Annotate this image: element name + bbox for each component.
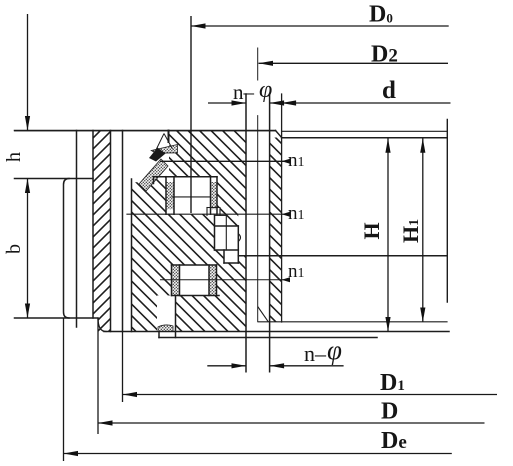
svg-text:De: De [381,428,407,454]
svg-text:H: H [359,222,384,239]
svg-text:D2: D2 [371,42,398,68]
svg-text:d: d [382,77,396,104]
svg-text:h: h [3,152,25,162]
svg-text:b: b [3,244,25,254]
svg-text:D: D [381,399,398,425]
svg-text:n–φ: n–φ [233,77,272,104]
